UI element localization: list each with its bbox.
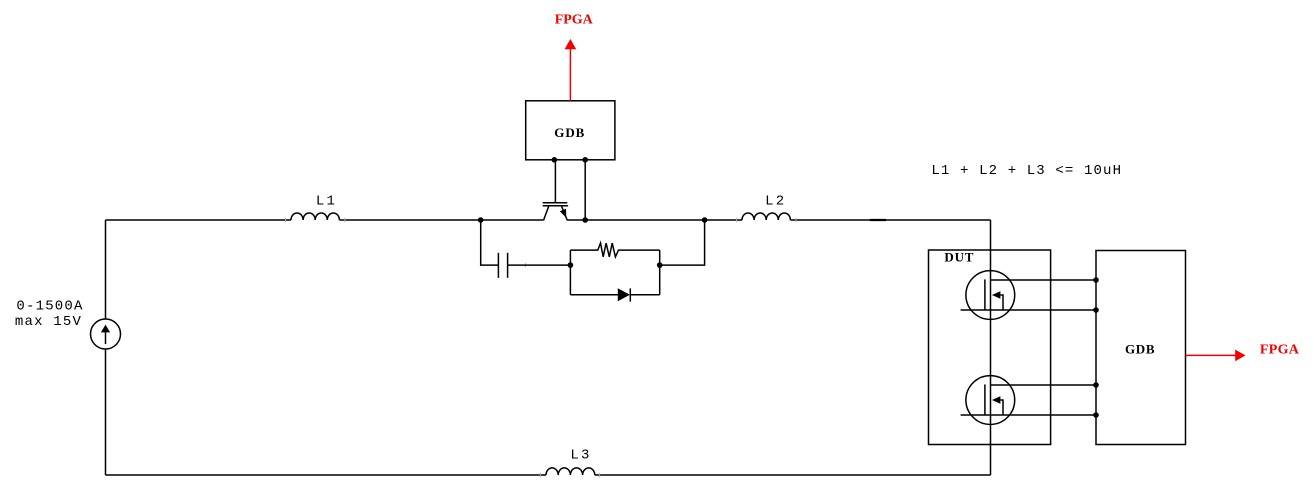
GDB box (top) (526, 101, 615, 160)
svg-text:FPGA: FPGA (555, 13, 594, 28)
node: GDB right pin 2 (1093, 307, 1099, 313)
wire: top rail from IGBT emitter to L2 (567, 219, 742, 221)
IGBT Q1 (543, 203, 568, 221)
wire: top rail right segment (790, 219, 990, 221)
wire: cap to RD block (508, 264, 571, 266)
red arrow to FPGA (top) (565, 39, 577, 101)
RD block left vertical (569, 250, 571, 295)
node: GDB right pin 1 (1093, 277, 1099, 283)
node: RD block left (568, 262, 574, 268)
RD block right vertical (659, 250, 661, 295)
IGBT emitter arrow (560, 209, 566, 218)
node: GDB right pin 4 (1093, 412, 1099, 418)
GDB box (right) (1096, 251, 1186, 445)
wire: top rail left segment (106, 219, 292, 221)
wire: RD block to top rail (660, 220, 705, 265)
svg-text:DUT: DUT (944, 250, 973, 265)
MOSFET Q2 (top) (961, 271, 1096, 320)
wire: vertical from GDB to emitter node (584, 160, 586, 220)
svg-text:GDB: GDB (554, 125, 584, 140)
node: GDB top pin 1 (552, 157, 558, 163)
capacitor C1 plates (497, 253, 499, 278)
DUT box (929, 250, 1051, 445)
wire: top rail between L1 and IGBT (339, 219, 543, 221)
MOSFET Q2 arrow (992, 291, 1001, 298)
svg-text:L1 + L2 + L3 <= 10uH: L1 + L2 + L3 <= 10uH (931, 163, 1121, 179)
inductor L2 (742, 213, 790, 220)
wire: right vertical drop through DUT (990, 220, 992, 475)
node: emitter junction (582, 217, 588, 223)
node: RD block right (657, 262, 663, 268)
red arrow to FPGA (right) (1186, 350, 1246, 362)
wire: bottom rail left segment (106, 474, 547, 476)
diode D1 triangle (618, 288, 630, 301)
svg-text:FPGA: FPGA (1260, 343, 1300, 358)
label 0-1500A max 15V (15, 298, 83, 330)
MOSFET Q3 arrow (992, 396, 1001, 403)
IGBT Q1 gate lead (554, 160, 556, 202)
node: GDB right pin 3 (1093, 382, 1099, 388)
wire: left vertical with current source (105, 220, 107, 475)
svg-text:0-1500A: 0-1500A (16, 298, 83, 314)
node: snubber left tap (478, 217, 484, 223)
inductor L1 (291, 213, 339, 220)
svg-text:max 15V: max 15V (15, 314, 82, 330)
svg-text:GDB: GDB (1125, 342, 1155, 357)
resistor R1 with top rail (570, 243, 659, 257)
snubber capacitor C1 tap wire (481, 220, 705, 302)
inductor L3 (546, 468, 595, 475)
wire: bottom rail right segment (595, 474, 991, 476)
diode D1 bottom rail (570, 294, 618, 296)
MOSFET Q3 (bottom) (961, 376, 1096, 425)
wire: overlapped thicker segment on top rail (870, 219, 886, 221)
terminal tick marks (286, 218, 797, 477)
current source I1 (91, 319, 121, 349)
node: snubber right tap (702, 217, 708, 223)
node: GDB top pin 2 (582, 157, 588, 163)
